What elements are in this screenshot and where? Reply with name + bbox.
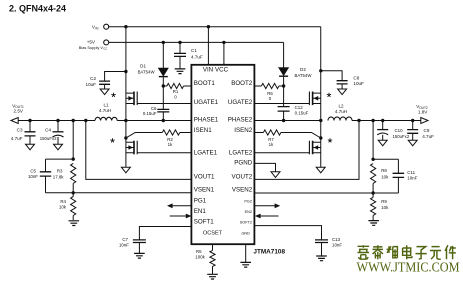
ground C9 [408, 140, 417, 146]
pin OCSET [203, 231, 223, 237]
svg-text:150uFx2: 150uFx2 [40, 136, 57, 141]
pin EN2 [245, 210, 252, 214]
wire node A2 to C11 [373, 158, 398, 160]
capacitor C6 [157, 86, 169, 121]
svg-text:R9: R9 [381, 199, 387, 204]
ground C10 [378, 140, 387, 146]
node C1 junction [178, 41, 181, 44]
svg-text:1.8V: 1.8V [418, 109, 428, 114]
ground C13 [316, 256, 327, 261]
op-amp U1 JTMA7108 body [191, 65, 254, 244]
label R7 1k [268, 137, 274, 147]
label C5 10nF [28, 169, 38, 180]
resistor R3 [71, 163, 76, 192]
node C10 junction [381, 119, 384, 122]
svg-text:10nF: 10nF [407, 176, 417, 181]
label C10 150uFx2 [393, 128, 410, 139]
node PHASE2-C12 junction [282, 119, 285, 122]
node A2 feedback top [371, 158, 374, 161]
svg-text:C3: C3 [17, 127, 23, 132]
capacitor C8 [321, 71, 348, 89]
terminal VOUT2 arrow [421, 118, 428, 124]
svg-text:BAT54W: BAT54W [295, 73, 313, 78]
svg-text:0.15uF: 0.15uF [143, 111, 157, 116]
capacitor C13 [315, 240, 328, 256]
svg-text:LGATE2: LGATE2 [229, 150, 253, 157]
mark Q1 asterisk [111, 93, 115, 97]
wire LGATE2 [254, 152, 309, 154]
svg-text:Bias Supply V: Bias Supply V [79, 45, 104, 50]
svg-text:1k: 1k [168, 142, 173, 147]
svg-text:C10: C10 [395, 128, 404, 133]
node A feedback top [72, 157, 75, 160]
svg-text:17.8k: 17.8k [53, 175, 65, 180]
label D1 BAT54W [138, 63, 156, 74]
resistor R5 [210, 250, 215, 274]
capacitor C1 [174, 42, 186, 68]
label R8 10k [381, 168, 389, 179]
ground GND pin [240, 262, 251, 267]
pin EN1 [194, 208, 207, 215]
svg-text:2. QFN4x4-24: 2. QFN4x4-24 [9, 4, 66, 14]
label L1 4.7uH [99, 103, 111, 113]
wire VOUT2 rail [352, 120, 421, 122]
label L2 4.7uH [335, 104, 347, 114]
wire VOUT1 sense [86, 121, 192, 180]
ground C7 [134, 253, 145, 258]
wire VOUT1 rail [18, 120, 95, 122]
svg-text:C11: C11 [407, 170, 415, 175]
pin ISEN2 [234, 127, 252, 134]
label R9 10k [381, 199, 389, 210]
pin LGATE1 [194, 150, 218, 157]
wire PHASE1 [117, 120, 191, 122]
ground PGND [271, 172, 280, 178]
node R8 tap junction [371, 119, 374, 122]
resistor R4 [71, 193, 76, 220]
node VIN-Q1 junction [124, 25, 127, 28]
svg-text:LGATE1: LGATE1 [194, 150, 218, 157]
svg-text:C8: C8 [353, 76, 359, 81]
svg-text:R3: R3 [57, 169, 63, 174]
label C1 4.7uF [191, 48, 203, 59]
pin VOUT2 [232, 174, 253, 181]
svg-text:10k: 10k [381, 205, 389, 210]
ground R5 [207, 274, 218, 279]
svg-text:10uF: 10uF [353, 81, 364, 86]
label C8 10uF [353, 76, 364, 87]
pin PGND [234, 160, 252, 167]
svg-text:10k: 10k [59, 205, 67, 210]
wire PHASE2 [254, 120, 320, 122]
node Q1 drain junction [124, 70, 127, 73]
label C13 10nF [332, 237, 342, 247]
node VOUT2 sense junction [357, 119, 360, 122]
resistor R2 [126, 130, 191, 138]
node VOUT1 sense junction [84, 119, 87, 122]
label R2 1k [167, 137, 173, 147]
watermark url [357, 260, 460, 275]
wire VIN rail [109, 26, 321, 28]
svg-text:2.5V: 2.5V [14, 109, 24, 114]
ground C8 [338, 89, 347, 95]
svg-text:4.7uH: 4.7uH [335, 109, 347, 114]
watermark chinese text [358, 245, 456, 259]
svg-text:PGND: PGND [234, 160, 252, 167]
label JTMA7108 [253, 249, 285, 256]
ground Q4 source [316, 167, 325, 173]
pin SOFT1 [194, 219, 214, 226]
pin VSEN1 [194, 187, 215, 194]
svg-text:1k: 1k [269, 142, 274, 147]
wire +5V rail [109, 41, 284, 43]
pin UGATE1 [194, 99, 219, 106]
svg-text:CC: CC [103, 46, 107, 50]
node B feedback mid [72, 191, 75, 194]
wire EN2 arrow [255, 214, 279, 219]
svg-text:C5: C5 [30, 169, 36, 174]
svg-text:SOFT1: SOFT1 [194, 219, 214, 226]
svg-text:D1: D1 [140, 63, 146, 68]
label VOUT2 1.8V [416, 104, 428, 114]
inductor L2 [328, 117, 352, 121]
node C3 junction [28, 119, 31, 122]
svg-text:GND: GND [241, 232, 250, 236]
wire OCSET [212, 244, 214, 250]
svg-text:10k: 10k [381, 174, 389, 179]
pin PHASE2 [228, 117, 253, 124]
capacitor C10 [377, 121, 388, 141]
label C9 4.7uF [422, 128, 434, 139]
terminal VIN [92, 24, 109, 30]
terminal VOUT1 arrow [11, 118, 18, 124]
resistor R8 [371, 164, 376, 194]
svg-text:150uFx2: 150uFx2 [393, 134, 410, 139]
resistor R7 [254, 130, 320, 138]
pin PG2 [244, 200, 252, 204]
pin BOOT2 [231, 80, 253, 87]
node PHASE1-C6 junction [162, 119, 165, 122]
wire Q4 drain-source line [320, 121, 322, 167]
node BOOT2 junction [282, 84, 285, 87]
wire PGND [254, 163, 275, 171]
svg-text:4.7uF: 4.7uF [422, 134, 434, 139]
svg-text:C12: C12 [295, 105, 304, 110]
svg-text:VSEN1: VSEN1 [194, 187, 215, 194]
label C4 150uFx2 [40, 127, 57, 141]
svg-text:BOOT2: BOOT2 [231, 80, 253, 87]
wire VCC pin drop [223, 42, 225, 64]
ground C1 [175, 69, 186, 74]
svg-text:VOUT1: VOUT1 [194, 174, 215, 181]
node C4 junction [56, 119, 59, 122]
node D1 anode junction [162, 41, 165, 44]
label C3 4.7uF [11, 127, 23, 141]
label C11 10nF [407, 170, 417, 181]
node ISEN2 tap [319, 136, 322, 139]
svg-text:VSEN2: VSEN2 [232, 187, 253, 194]
node Q3 drain junction [319, 69, 322, 72]
pin GND [241, 232, 250, 236]
capacitor C2 [99, 72, 126, 90]
wire Q2 drain-source line [125, 121, 127, 167]
wire SOFT1 [139, 227, 191, 240]
wire Q1 drain-source line [125, 27, 127, 121]
node PHASE2 junction [319, 119, 322, 122]
wire PG2 arrow [254, 203, 280, 208]
pin ISEN1 [194, 127, 212, 134]
label VIN VCC pins [203, 67, 229, 74]
svg-text:0.15uF: 0.15uF [295, 111, 309, 116]
terminal +5V bias supply VCC [79, 40, 109, 51]
wire EN1 arrow [170, 214, 192, 219]
svg-text:ISEN1: ISEN1 [194, 127, 212, 134]
svg-text:4.7uH: 4.7uH [99, 108, 111, 113]
svg-text:C1: C1 [191, 48, 197, 53]
pin UGATE2 [228, 99, 253, 106]
wire SOFT2 [254, 226, 321, 240]
wire VIN pin drop [207, 27, 209, 65]
wire node A to C5 [46, 158, 74, 160]
ground C2 [100, 89, 109, 95]
label R6 0 [267, 91, 273, 101]
capacitor C5 [40, 159, 51, 193]
ground Q2 source [121, 167, 130, 173]
wire UGATE1 [137, 103, 191, 105]
pin BOOT1 [194, 80, 216, 87]
wire UGATE2 [254, 103, 309, 105]
node C9 junction [411, 119, 414, 122]
svg-text:10uF: 10uF [86, 82, 97, 87]
node VIN pin junction [207, 25, 210, 28]
transistor Q4 low-side [309, 141, 320, 155]
ground C3 [26, 144, 35, 150]
svg-text:D2: D2 [300, 67, 306, 72]
svg-text:C6: C6 [151, 106, 157, 111]
svg-text:C13: C13 [332, 237, 341, 242]
pin VSEN2 [232, 187, 253, 194]
svg-text:C9: C9 [424, 128, 430, 133]
pin PG1 [194, 198, 207, 205]
svg-text:OCSET: OCSET [203, 231, 223, 237]
transistor Q3 high-side [309, 92, 320, 106]
transistor Q2 low-side [126, 141, 137, 155]
svg-text:VOUT2: VOUT2 [232, 174, 253, 181]
mark Q2 asterisk [110, 138, 114, 142]
svg-text:EN2: EN2 [245, 210, 252, 214]
svg-text:PG1: PG1 [194, 198, 207, 205]
svg-text:VIN: VIN [203, 67, 213, 74]
svg-text:100k: 100k [195, 255, 205, 260]
svg-text:JTMA7108: JTMA7108 [253, 249, 285, 256]
inductor L1 [95, 117, 117, 120]
svg-text:EN1: EN1 [194, 208, 207, 215]
svg-text:BOOT1: BOOT1 [194, 80, 216, 87]
svg-text:10nF: 10nF [119, 243, 129, 248]
wire R3 tap [72, 121, 74, 160]
svg-text:C2: C2 [90, 76, 96, 81]
resistor R6 [254, 83, 283, 88]
node PHASE1 junction [124, 119, 127, 122]
svg-text:PG2: PG2 [244, 200, 252, 204]
label R5 100k [195, 249, 205, 259]
node ISEN1 tap [124, 136, 127, 139]
label R3 17.8k [53, 169, 65, 180]
ground R9 [368, 221, 379, 226]
node B2 feedback mid [371, 191, 374, 194]
label VOUT1 2.5V [12, 103, 24, 113]
label C7 10nF [119, 237, 129, 247]
svg-text:WWW.JTMIC.COM: WWW.JTMIC.COM [357, 260, 460, 275]
wire Q3 drain-source line [320, 27, 322, 121]
svg-text:SOFT2: SOFT2 [240, 221, 252, 225]
capacitor C12 [278, 86, 290, 121]
ground R4 [69, 221, 80, 226]
wire VOUT2 sense [254, 121, 359, 180]
svg-text:4.7uF: 4.7uF [191, 54, 203, 59]
svg-text:PHASE1: PHASE1 [194, 117, 219, 124]
label C2 10uF [86, 76, 97, 87]
wire GND pin [245, 244, 247, 262]
svg-text:BAT54W: BAT54W [138, 69, 156, 74]
pin VOUT1 [194, 174, 215, 181]
node R3 tap junction [72, 119, 75, 122]
svg-text:R1: R1 [173, 89, 179, 94]
wire VSEN1 [46, 192, 192, 194]
wire LGATE1 [137, 152, 191, 154]
resistor R1 [163, 83, 191, 88]
svg-text:PHASE2: PHASE2 [228, 117, 253, 124]
svg-text:R4: R4 [60, 199, 66, 204]
diode D2 BAT54W [279, 42, 289, 86]
svg-text:4.7uF: 4.7uF [11, 136, 23, 141]
node BOOT1 junction [162, 84, 165, 87]
capacitor C7 [133, 240, 146, 253]
node VCC pin junction [222, 41, 225, 44]
capacitor C3 [25, 121, 36, 145]
svg-text:UGATE2: UGATE2 [228, 99, 253, 106]
svg-text:VCC: VCC [215, 67, 229, 74]
svg-text:ISEN2: ISEN2 [234, 127, 252, 134]
label R4 10k [59, 199, 67, 210]
svg-text:10nF: 10nF [332, 243, 342, 248]
diode D1 BAT54W [158, 42, 168, 86]
capacitor C11 [393, 159, 405, 193]
mark Q3 asterisk [327, 93, 331, 97]
label C6 0.15uF [143, 106, 157, 116]
wire R8 tap [372, 121, 374, 160]
wire PG1 arrow [167, 203, 191, 208]
label C12 0.15uF [295, 105, 309, 115]
pin SOFT2 [240, 221, 252, 225]
label R1 0 [173, 89, 179, 99]
title [9, 4, 66, 14]
svg-text:C7: C7 [122, 237, 128, 242]
capacitor C9 [407, 121, 418, 141]
svg-text:R5: R5 [196, 249, 202, 254]
ground C4 [54, 144, 63, 150]
pin PHASE1 [194, 117, 219, 124]
label D2 BAT54W [295, 67, 313, 78]
pin LGATE2 [229, 150, 253, 157]
svg-text:UGATE1: UGATE1 [194, 99, 219, 106]
resistor R9 [371, 193, 376, 220]
svg-text:R8: R8 [381, 168, 387, 173]
svg-text:C4: C4 [45, 127, 51, 132]
svg-text:10nF: 10nF [28, 174, 38, 179]
mark Q4 asterisk [328, 138, 332, 142]
capacitor C4 [53, 121, 64, 145]
wire VSEN2 [254, 192, 398, 194]
transistor Q1 high-side [126, 92, 137, 106]
